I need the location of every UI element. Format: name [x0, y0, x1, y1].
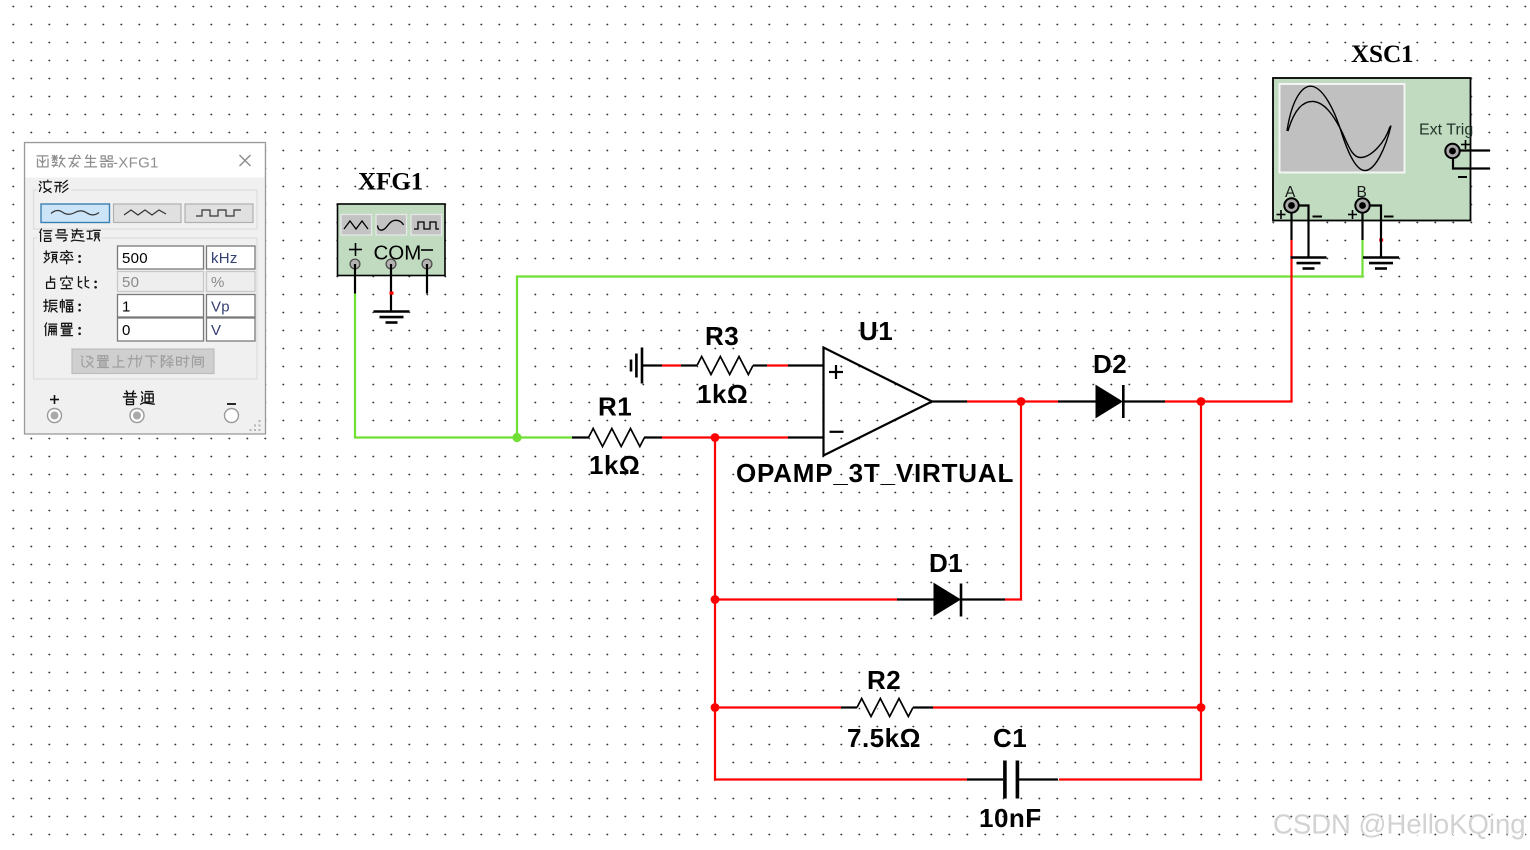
- junction: D2 cathode node: [1197, 397, 1206, 406]
- pin XSC1 channel A: [1277, 184, 1323, 258]
- svg-text:XFG1: XFG1: [358, 169, 423, 196]
- ground (scope channel A): [1291, 258, 1327, 269]
- svg-text:1kΩ: 1kΩ: [589, 450, 640, 480]
- label D2: [1093, 349, 1127, 379]
- svg-text:COM: COM: [374, 242, 422, 265]
- svg-text:kHz: kHz: [211, 250, 238, 267]
- wire: R3 to op-amp non-inverting input (red segment): [767, 364, 788, 366]
- svg-text:1: 1: [122, 298, 131, 315]
- capacitor C1: [967, 761, 1058, 799]
- junction: op-amp output node: [1017, 397, 1026, 406]
- svg-text:V: V: [211, 322, 221, 339]
- junction: D1 anode node: [711, 595, 720, 604]
- pin XSC1 Ext Trig: [1445, 140, 1490, 177]
- value 1k&#937; (R3): [697, 379, 748, 409]
- label C1: [993, 723, 1027, 753]
- svg-text:U1: U1: [859, 316, 893, 346]
- diode D2: [1058, 385, 1165, 418]
- ground (XFG1 COM): [374, 312, 410, 323]
- resistor R3: [681, 357, 767, 375]
- wire: C1 branch bottom (red): [715, 708, 1202, 781]
- ground (R3 non-inverting reference, rotated): [631, 348, 662, 384]
- wire: inverting node down to D1/R2/C1 (red): [714, 438, 716, 781]
- junction: inverting input node: [711, 433, 720, 442]
- svg-text:Ext Trig: Ext Trig: [1419, 122, 1473, 139]
- svg-text:CSDN @HelloKQing: CSDN @HelloKQing: [1273, 809, 1526, 840]
- pin XFG1 -: [422, 259, 432, 293]
- wire: D1 anode from inverting node (red): [715, 598, 897, 600]
- svg-text:-XFG1: -XFG1: [113, 155, 159, 172]
- diode D1: [897, 584, 1005, 617]
- wire: right vertical D2 cathode node (red): [1200, 402, 1202, 708]
- svg-text:7.5kΩ: 7.5kΩ: [847, 723, 921, 753]
- junction: R2 right node: [1197, 703, 1206, 712]
- svg-text:0: 0: [122, 322, 131, 339]
- svg-text:500: 500: [122, 250, 148, 267]
- value 7.5k&#937; (R2): [847, 723, 921, 753]
- ground (scope channel B): [1363, 258, 1399, 269]
- svg-text:C1: C1: [993, 723, 1027, 753]
- pin XFG1 COM: [386, 259, 396, 311]
- svg-text:R3: R3: [705, 321, 739, 351]
- oscilloscope XSC1 (instrument icon): [1273, 78, 1473, 221]
- wire: ground to R3 (red segment): [662, 364, 681, 366]
- junction: green net node at R1 input: [512, 433, 521, 442]
- svg-text:1kΩ: 1kΩ: [697, 379, 748, 409]
- wire: XFG1 + output net (green): [354, 240, 1364, 439]
- watermark CSDN @HelloKQing: [1273, 809, 1527, 842]
- label XSC1: [1351, 41, 1414, 68]
- pin XSC1 channel B: [1348, 184, 1394, 258]
- function generator XFG1 (instrument icon): [338, 204, 446, 276]
- wire: R2 feedback branch (red): [715, 706, 1202, 708]
- label R1: [598, 392, 632, 422]
- label D1: [929, 548, 963, 578]
- junction: R2 left node: [711, 703, 720, 712]
- svg-text:R2: R2: [867, 665, 901, 695]
- op-amp U1 OPAMP_3T_VIRTUAL: [788, 348, 967, 456]
- resistor R2: [841, 699, 933, 717]
- label XFG1: [358, 169, 423, 196]
- wire: op-amp output to D2 and scope A (red): [967, 240, 1293, 402]
- function generator dialog XFG1: [25, 143, 266, 435]
- wire: R1 to op-amp inverting input (red): [662, 436, 788, 438]
- svg-text:R1: R1: [598, 392, 632, 422]
- label OPAMP_3T_VIRTUAL: [736, 458, 1014, 488]
- label R3: [705, 321, 739, 351]
- label U1: [859, 316, 893, 346]
- resistor R1: [572, 429, 662, 447]
- svg-text:XSC1: XSC1: [1351, 41, 1414, 68]
- svg-text:%: %: [211, 274, 225, 291]
- label R2: [867, 665, 901, 695]
- value 10nF (C1): [979, 803, 1042, 833]
- pin XFG1 +: [350, 259, 360, 293]
- svg-text:D1: D1: [929, 548, 963, 578]
- wire: output node down to D1 cathode (red): [1005, 402, 1022, 600]
- svg-text:OPAMP_3T_VIRTUAL: OPAMP_3T_VIRTUAL: [736, 458, 1014, 488]
- svg-text:50: 50: [122, 274, 139, 291]
- svg-text:10nF: 10nF: [979, 803, 1042, 833]
- value 1k&#937; (R1): [589, 450, 640, 480]
- svg-text:D2: D2: [1093, 349, 1127, 379]
- svg-text:Vp: Vp: [211, 298, 230, 315]
